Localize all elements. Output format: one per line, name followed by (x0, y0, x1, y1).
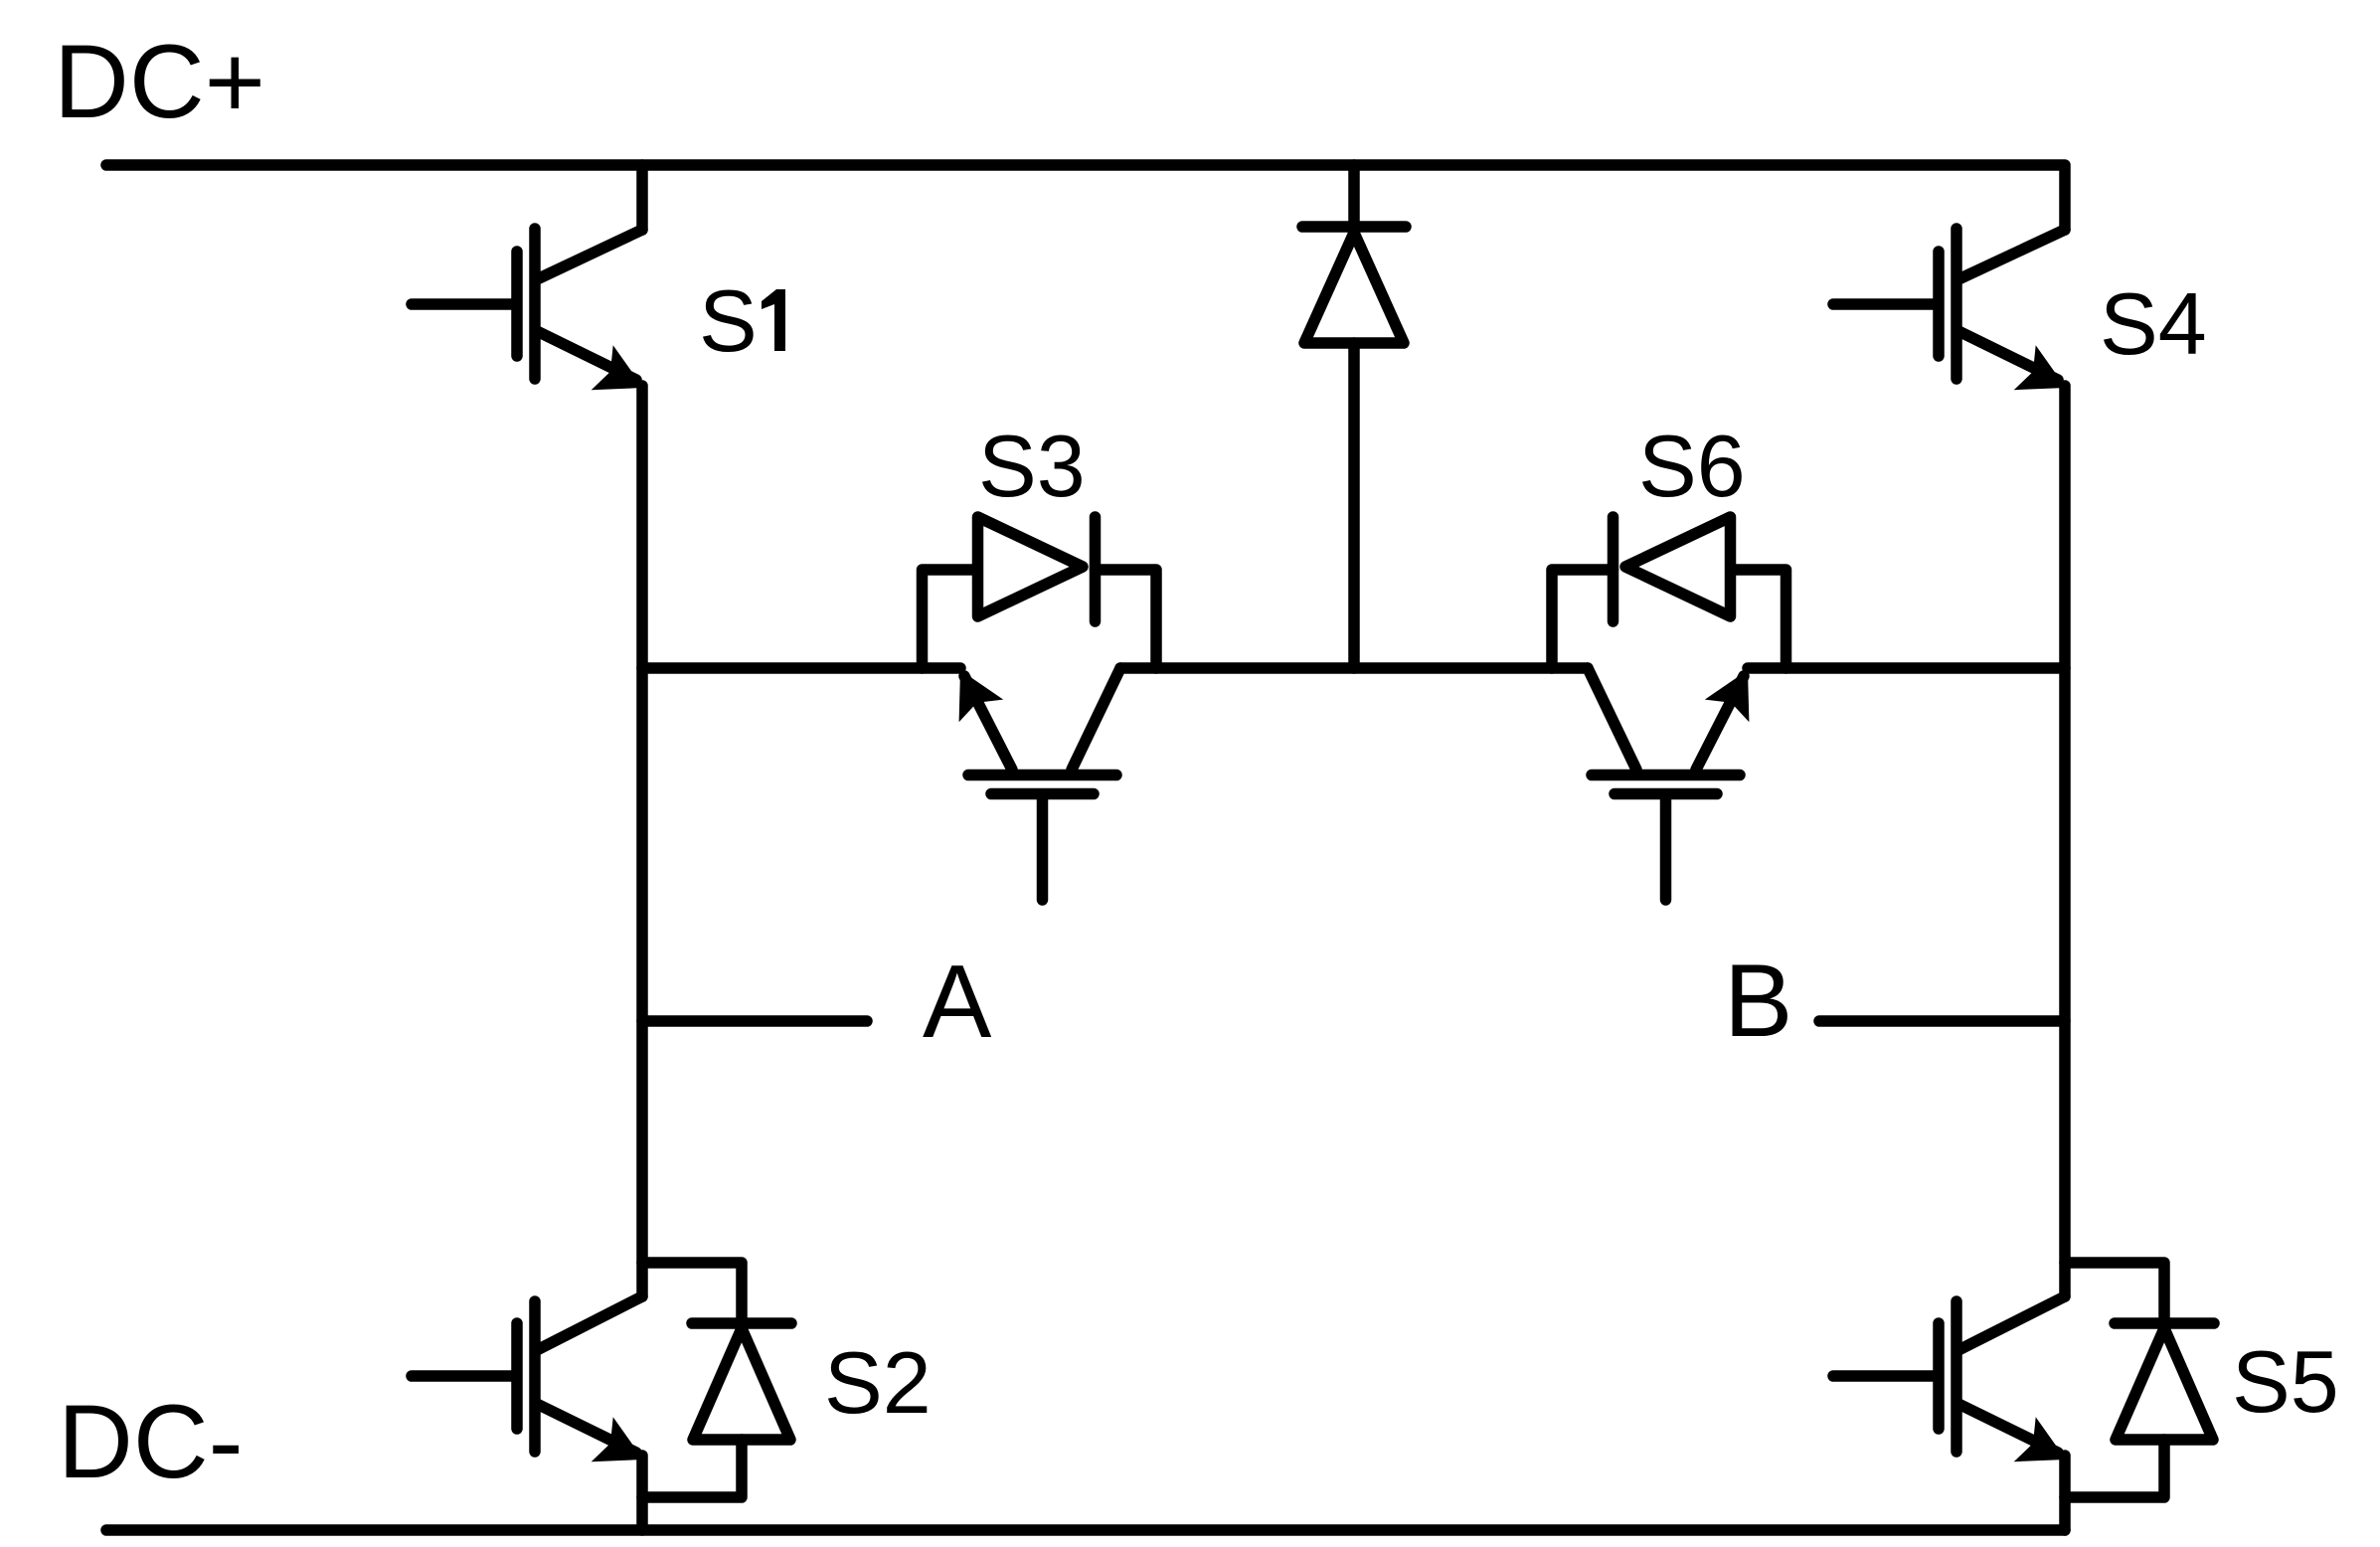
transistor S6 (1588, 668, 1744, 900)
diode D5 (antiparallel with S5) (2065, 1263, 2214, 1497)
arrowhead S4 emitter (2014, 345, 2066, 390)
svg-text:S3: S3 (978, 417, 1086, 515)
arrowhead S1 emitter (592, 345, 643, 390)
wire mid rail left segment (642, 662, 960, 674)
svg-text:DC+: DC+ (54, 24, 265, 140)
svg-text:S6: S6 (1638, 417, 1746, 515)
svg-text:S5: S5 (2232, 1332, 2339, 1431)
diode D3 (antiparallel with S3) (923, 517, 1157, 668)
svg-text:S4: S4 (2100, 274, 2207, 373)
wire mid rail center segment (1120, 662, 1588, 674)
node DC+ rail (106, 165, 2065, 230)
diode D6 (antiparallel with S6) (1552, 517, 1786, 668)
transistor S3 (964, 668, 1120, 900)
wire node B stub (1819, 1015, 2065, 1027)
wire S1 emitter to S2 collector (node A vertical) (636, 386, 648, 1296)
svg-text:A: A (923, 945, 992, 1060)
wire node A stub (642, 1015, 867, 1027)
svg-text:S2: S2 (824, 1333, 932, 1432)
arrowhead S5 emitter (2014, 1417, 2066, 1461)
svg-text:S: S (699, 271, 758, 370)
wire mid rail right segment (1748, 662, 2065, 674)
svg-text:DC-: DC- (58, 1384, 244, 1500)
arrowhead S2 emitter (592, 1417, 643, 1461)
transistor S4 (1833, 229, 2065, 380)
svg-text:B: B (1724, 944, 1792, 1059)
diode D7 (center clamp diode) (1302, 165, 1406, 668)
arrowhead S6 emitter (1705, 670, 1750, 722)
transistor S2 (412, 1296, 642, 1530)
arrowhead S3 emitter (959, 670, 1004, 722)
wire S4 emitter to S5 collector (node B vertical) (2059, 386, 2071, 1296)
node DC- rail (106, 1524, 2065, 1536)
transistor S5 (1833, 1296, 2065, 1530)
transistor S1 (412, 165, 642, 380)
diode D2 (antiparallel with S2) (642, 1263, 791, 1497)
